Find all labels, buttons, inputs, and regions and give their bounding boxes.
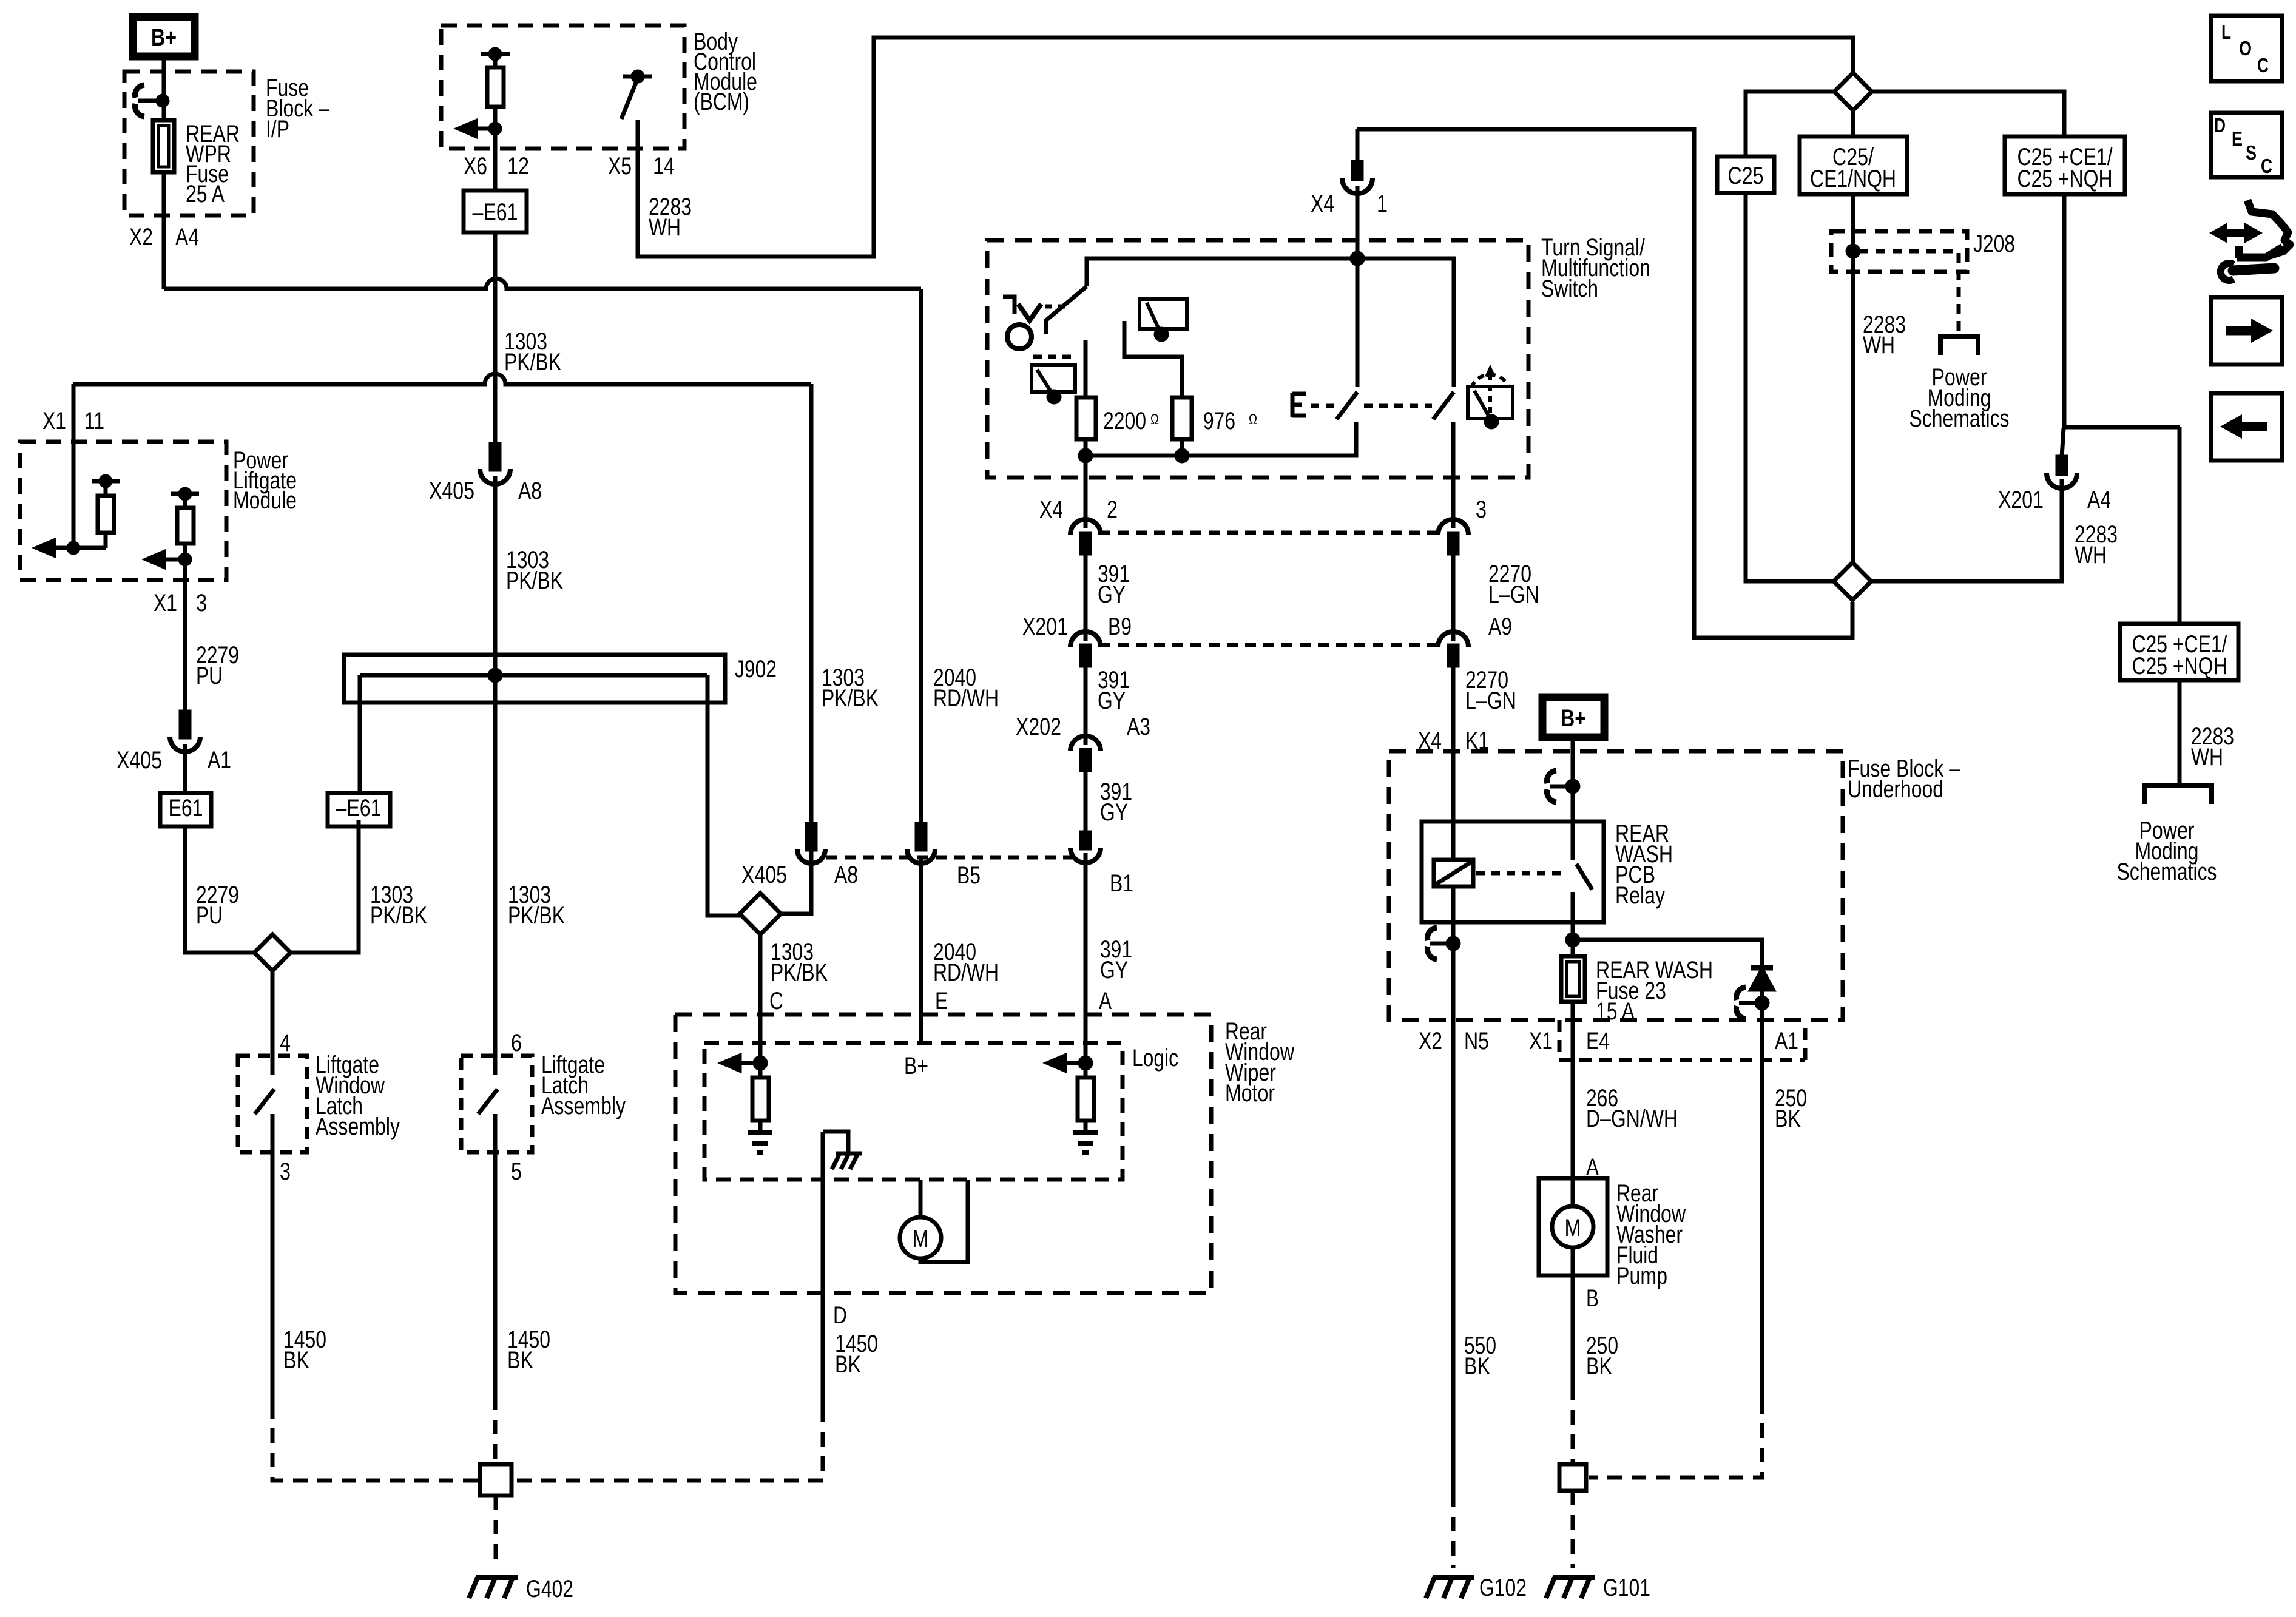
svg-text:M: M bbox=[913, 1226, 929, 1252]
svg-text:11: 11 bbox=[84, 408, 104, 434]
svg-text:Module: Module bbox=[233, 487, 297, 514]
svg-text:A8: A8 bbox=[518, 478, 542, 504]
stalk switch arm bbox=[1046, 286, 1087, 334]
svg-text:E4: E4 bbox=[1586, 1028, 1610, 1055]
BCM switch (X5-14) bbox=[633, 72, 643, 81]
wire J902 center leg down to liftgate latch bbox=[493, 675, 498, 1056]
wire pump B down to G101 splice bbox=[1571, 1275, 1575, 1386]
dashed row X4-2 to 3 bbox=[1099, 531, 1439, 535]
wire X1-3 down to X405-A1 bbox=[183, 559, 187, 712]
connector X202-A3 bbox=[1070, 736, 1101, 751]
wire N5 550 BK down to G102 bbox=[1451, 1020, 1456, 1493]
wire pin3 down (solid then dashed) bbox=[271, 1152, 275, 1404]
svg-text:PK/BK: PK/BK bbox=[370, 902, 427, 929]
motor resistor A bbox=[1084, 1063, 1088, 1078]
stalk circle bbox=[1007, 325, 1032, 349]
connector X4-1 bbox=[1353, 162, 1362, 179]
wire fuse to E4 bbox=[1571, 1002, 1575, 1020]
svg-text:PK/BK: PK/BK bbox=[508, 902, 565, 929]
svg-text:X4: X4 bbox=[1418, 727, 1442, 754]
wire C from diamond into wiper motor bbox=[758, 934, 763, 1063]
fuse clip (B+ relay feed) bbox=[1550, 785, 1572, 789]
J208 dashed box bbox=[1831, 231, 1967, 272]
diamond2 (2283 WH splice bottom) bbox=[1834, 562, 1871, 600]
bracket to power moding (J208) bbox=[1940, 336, 1978, 355]
svg-text:BK: BK bbox=[1586, 1353, 1612, 1380]
dashes above wiper icon 2 bbox=[1033, 355, 1074, 359]
washer icon (dashed arc + rect) bbox=[1471, 374, 1509, 388]
wire fuse to corner bbox=[162, 172, 166, 289]
svg-text:WH: WH bbox=[649, 214, 681, 241]
svg-text:B+: B+ bbox=[151, 24, 177, 51]
wire 391 GY B9 to X202-A3 bbox=[1084, 666, 1088, 745]
wire 391 GY X4-2 to X201-B9 bbox=[1084, 553, 1088, 641]
svg-text:(BCM): (BCM) bbox=[694, 89, 749, 115]
svg-text:PK/BK: PK/BK bbox=[822, 685, 879, 712]
Liftgate Window Latch Assembly dashed box bbox=[238, 1056, 307, 1152]
left arrow icon box bbox=[2211, 393, 2282, 461]
J902 splice pack bbox=[344, 655, 725, 703]
fuse REAR WASH 23 (double rect) bbox=[1561, 956, 1585, 1002]
svg-text:2200: 2200 bbox=[1103, 408, 1146, 434]
inner top wire of switch bbox=[1087, 258, 1454, 387]
svg-text:K1: K1 bbox=[1465, 727, 1489, 754]
module resistor 2 bbox=[171, 492, 199, 496]
wire junction down to fuse 23 bbox=[1571, 940, 1575, 956]
wire corner down to C25+CE1 box 2 bbox=[2178, 427, 2182, 624]
svg-text:GY: GY bbox=[1100, 799, 1128, 826]
svg-text:C: C bbox=[769, 988, 783, 1014]
svg-text:WH: WH bbox=[1863, 332, 1895, 359]
svg-text:BK: BK bbox=[835, 1351, 861, 1378]
latch 2 switch bbox=[493, 1056, 498, 1075]
wire 1303 drop to X405 A8 connector row bbox=[809, 384, 814, 824]
wire B+ down to clip bbox=[1571, 737, 1575, 822]
wire 391 GY A into motor bbox=[1084, 853, 1088, 1063]
svg-text:GY: GY bbox=[1100, 957, 1128, 984]
wash switch (switch 1) bbox=[1356, 258, 1360, 387]
connector X201-B9 bbox=[1070, 632, 1101, 647]
svg-text:C25 +NQH: C25 +NQH bbox=[2132, 653, 2227, 680]
svg-text:GY: GY bbox=[1098, 581, 1126, 608]
svg-text:Logic: Logic bbox=[1132, 1045, 1178, 1072]
svg-text:X202: X202 bbox=[1016, 714, 1061, 740]
wire icon1 to resistor 976 bbox=[1124, 321, 1182, 397]
svg-text:A9: A9 bbox=[1488, 613, 1512, 640]
motor C junction arrow bbox=[755, 1058, 766, 1068]
Fuse Block Underhood dashed box bbox=[1389, 751, 1843, 1020]
svg-text:PK/BK: PK/BK bbox=[771, 959, 828, 986]
svg-text:RD/WH: RD/WH bbox=[933, 959, 999, 986]
svg-text:CE1/NQH: CE1/NQH bbox=[1810, 166, 1896, 192]
resistor 976 ohm bbox=[1172, 397, 1192, 439]
svg-text:976: 976 bbox=[1203, 408, 1235, 434]
svg-text:15 A: 15 A bbox=[1596, 998, 1635, 1025]
wire A1 250 BK down and left to splice bbox=[1760, 1020, 1764, 1399]
Rear Window Wiper Motor dashed box bbox=[675, 1014, 1211, 1293]
svg-text:X1: X1 bbox=[1529, 1028, 1553, 1055]
svg-text:Ω: Ω bbox=[1249, 411, 1257, 428]
fuse clip (A1 output) bbox=[1739, 1001, 1761, 1005]
wire box2 to power moding bracket bbox=[2178, 680, 2182, 784]
svg-text:BK: BK bbox=[1775, 1106, 1801, 1132]
svg-text:Assembly: Assembly bbox=[316, 1113, 400, 1140]
svg-text:3: 3 bbox=[1476, 496, 1487, 523]
wire J902 left leg to -E61 bbox=[358, 675, 362, 793]
svg-text:PK/BK: PK/BK bbox=[504, 349, 561, 376]
BCM internal resistor bbox=[481, 52, 510, 56]
svg-text:Underhood: Underhood bbox=[1848, 776, 1943, 803]
svg-text:X5: X5 bbox=[608, 153, 632, 180]
motor A junction arrow bbox=[1080, 1058, 1091, 1068]
svg-text:A4: A4 bbox=[2087, 487, 2111, 513]
Logic dashed box bbox=[704, 1043, 1123, 1180]
relay coil bbox=[1434, 860, 1473, 886]
wire E (2040) below B5 into motor bbox=[919, 856, 923, 1043]
Power Liftgate Module dashed box bbox=[20, 442, 226, 580]
svg-text:X1: X1 bbox=[154, 590, 177, 616]
LOC icon box bbox=[2211, 16, 2282, 81]
relay dashed link bbox=[1476, 871, 1567, 876]
svg-text:A1: A1 bbox=[1775, 1028, 1798, 1055]
svg-text:X405: X405 bbox=[429, 478, 474, 504]
stub to X201-A4 bbox=[2062, 428, 2064, 457]
svg-text:3: 3 bbox=[280, 1158, 291, 1185]
resistor 2200 ohm bbox=[1076, 397, 1096, 439]
wire K1 through coil down to clip bbox=[1451, 886, 1456, 944]
svg-text:–E61: –E61 bbox=[473, 199, 518, 226]
svg-text:1: 1 bbox=[1377, 191, 1388, 217]
C25 box bbox=[1717, 157, 1774, 193]
ground G102 bbox=[1426, 1578, 1474, 1598]
wire diamond down to liftgate window latch bbox=[271, 971, 275, 1056]
svg-text:G402: G402 bbox=[526, 1576, 573, 1602]
svg-text:X4: X4 bbox=[1311, 191, 1334, 217]
module arrow 2 bbox=[163, 558, 185, 562]
wire C25 down to diamond2 bbox=[1746, 193, 1834, 581]
svg-text:–E61: –E61 bbox=[336, 795, 382, 822]
wire 391 GY A3 to B1 bbox=[1084, 768, 1088, 832]
wire 2270 L-GN A9 down to X4-K1 and relay coil bbox=[1451, 663, 1456, 860]
motor internal ground (chassis) bbox=[823, 1132, 848, 1152]
wire 1303 PK/BK from -E61 down to X405-A8 bbox=[493, 232, 498, 444]
svg-text:4: 4 bbox=[280, 1030, 291, 1056]
svg-text:L–GN: L–GN bbox=[1465, 687, 1516, 714]
svg-text:J902: J902 bbox=[735, 656, 777, 683]
motor loop wires bbox=[920, 1180, 968, 1262]
ground G402 bbox=[469, 1578, 518, 1598]
motor M circle bbox=[900, 1217, 941, 1258]
fuse clip (N5 output) bbox=[1430, 942, 1452, 946]
svg-text:B+: B+ bbox=[1561, 705, 1586, 732]
stalk dashes bbox=[1045, 305, 1065, 309]
svg-text:Motor: Motor bbox=[1225, 1080, 1275, 1107]
svg-text:X2: X2 bbox=[1419, 1028, 1442, 1055]
wire BCM X6-12 down to -E61 bbox=[493, 129, 498, 191]
latch 1 switch bbox=[271, 1056, 275, 1075]
fuse REAR WPR 25A (double rect) bbox=[153, 120, 174, 172]
svg-text:RD/WH: RD/WH bbox=[933, 685, 999, 712]
wire J902 right leg to X405 diamond bbox=[707, 675, 740, 916]
svg-text:A1: A1 bbox=[208, 747, 231, 774]
connector X201-A9 bbox=[1438, 632, 1468, 647]
tool icon outline bbox=[2247, 200, 2290, 255]
svg-text:Schematics: Schematics bbox=[2117, 859, 2217, 885]
svg-text:GY: GY bbox=[1098, 687, 1126, 714]
Liftgate Latch Assembly dashed box bbox=[461, 1056, 532, 1152]
svg-text:25 A: 25 A bbox=[186, 181, 225, 208]
dashed connector bracket X1/E4-A1 bbox=[1559, 1020, 1805, 1060]
svg-text:L–GN: L–GN bbox=[1488, 581, 1539, 608]
svg-text:B1: B1 bbox=[1110, 870, 1133, 897]
svg-text:D: D bbox=[2214, 114, 2226, 137]
svg-text:C: C bbox=[2257, 54, 2269, 76]
svg-text:14: 14 bbox=[653, 153, 675, 180]
connector A8 terminal (wiper motor row) bbox=[807, 824, 815, 849]
wire X5-14 down, right, up, right to diamond1 bbox=[638, 38, 1853, 257]
svg-text:J208: J208 bbox=[1973, 231, 2015, 257]
motor resistor C bbox=[758, 1063, 763, 1078]
svg-text:G101: G101 bbox=[1603, 1575, 1650, 1601]
relay switch bbox=[1571, 822, 1575, 860]
svg-text:D: D bbox=[833, 1302, 847, 1329]
connector B5 terminal bbox=[917, 824, 925, 849]
svg-text:X201: X201 bbox=[1998, 487, 2044, 513]
stalk bracket glyph bbox=[1003, 297, 1015, 314]
svg-text:A: A bbox=[1099, 988, 1112, 1014]
wire box down through J208 bbox=[1851, 194, 1855, 562]
wire E61 to splice diamond bbox=[185, 826, 254, 953]
svg-text:Schematics: Schematics bbox=[1909, 405, 2010, 432]
svg-text:Relay: Relay bbox=[1615, 882, 1665, 909]
svg-text:A3: A3 bbox=[1127, 714, 1150, 740]
svg-text:PU: PU bbox=[196, 902, 223, 929]
svg-text:B: B bbox=[1586, 1285, 1599, 1312]
tool icon double arrow bbox=[2221, 229, 2252, 237]
wire box down to corner bbox=[2064, 194, 2180, 427]
wire D down from motor ground bbox=[821, 1132, 825, 1408]
wiper icon 1 (rect with wiper arm) bbox=[1140, 299, 1187, 329]
connector X201-A4 bbox=[2058, 457, 2066, 474]
REAR WASH PCB Relay box bbox=[1422, 822, 1604, 922]
wire -E61 to splice diamond bbox=[291, 820, 359, 953]
wipe switch (switch 2) bbox=[1433, 392, 1454, 419]
svg-text:E: E bbox=[935, 988, 948, 1014]
wire pin5 down to G402 splice bbox=[493, 1152, 498, 1396]
svg-text:2: 2 bbox=[1107, 496, 1118, 523]
svg-text:BK: BK bbox=[1464, 1353, 1490, 1380]
tool icon wrench bbox=[2233, 268, 2274, 271]
svg-text:X405: X405 bbox=[116, 747, 162, 774]
wire 2040 RD/WH vertical down to B5 terminal bbox=[919, 289, 923, 823]
B+ box (fuse block underhood feed) bbox=[1542, 697, 1604, 737]
svg-text:X2: X2 bbox=[129, 224, 153, 251]
svg-text:12: 12 bbox=[507, 153, 529, 180]
C25+CE1/C25+NQH box (top) bbox=[2005, 137, 2125, 194]
wire 2270 L-GN X4-3 to A9 bbox=[1451, 553, 1456, 641]
svg-text:I/P: I/P bbox=[266, 116, 289, 143]
module resistor 1 bbox=[92, 479, 120, 484]
svg-text:WH: WH bbox=[2075, 542, 2107, 569]
connector B1 bbox=[1081, 832, 1090, 848]
svg-text:N5: N5 bbox=[1464, 1028, 1489, 1055]
svg-text:E: E bbox=[2232, 127, 2243, 150]
svg-text:PK/BK: PK/BK bbox=[506, 567, 563, 594]
splice square G101 bbox=[1559, 1464, 1586, 1491]
svg-text:X201: X201 bbox=[1022, 613, 1068, 640]
svg-text:A: A bbox=[1586, 1154, 1599, 1181]
wire above resistor 2200 bbox=[1084, 340, 1088, 397]
BCM arrow to left bbox=[474, 127, 496, 131]
dashed connector row A8-B5-B1 bbox=[826, 856, 1072, 860]
svg-text:Assembly: Assembly bbox=[541, 1093, 626, 1119]
label box -E61 (BCM output) bbox=[464, 191, 527, 232]
svg-text:Ω: Ω bbox=[1150, 411, 1159, 428]
wire junction to diode branch bbox=[1573, 940, 1762, 968]
svg-text:A8: A8 bbox=[834, 862, 858, 888]
svg-text:X1: X1 bbox=[42, 408, 66, 434]
BCM dashed box bbox=[441, 25, 684, 149]
Rear Window Washer Fluid Pump box bbox=[1539, 1178, 1607, 1275]
connector X4-3 bbox=[1438, 519, 1468, 535]
right arrow icon box bbox=[2211, 297, 2282, 365]
connector X405-A8 on 1303 wire bbox=[491, 444, 499, 470]
wire horizontal liftgate module run to A8 drop (hop at 816) bbox=[73, 374, 811, 384]
svg-text:B5: B5 bbox=[957, 862, 981, 889]
module arrow 1 bbox=[53, 546, 106, 550]
svg-text:B+: B+ bbox=[904, 1053, 928, 1079]
svg-text:D–GN/WH: D–GN/WH bbox=[1586, 1106, 1678, 1132]
ground (motor C side) bbox=[748, 1133, 772, 1153]
svg-text:BK: BK bbox=[283, 1347, 309, 1374]
pump M circle bbox=[1552, 1206, 1593, 1247]
svg-text:WH: WH bbox=[2191, 744, 2223, 771]
svg-text:C25 +NQH: C25 +NQH bbox=[2017, 166, 2113, 192]
svg-text:X405: X405 bbox=[741, 862, 787, 888]
svg-text:3: 3 bbox=[196, 590, 207, 616]
label box -E61 (left chain) bbox=[328, 793, 390, 826]
dashed row X201 B9-A9 bbox=[1099, 643, 1439, 647]
wire X201-A4 down to diamond2 bbox=[1871, 479, 2062, 581]
svg-text:S: S bbox=[2246, 141, 2257, 164]
svg-text:BK: BK bbox=[507, 1347, 533, 1374]
wire to E61 box bbox=[183, 744, 187, 793]
svg-text:C25: C25 bbox=[1728, 163, 1764, 189]
svg-text:X4: X4 bbox=[1039, 496, 1063, 523]
wire diamond1 down to C25/CE1/NQH bbox=[1851, 110, 1855, 137]
label box E61 bbox=[160, 793, 211, 826]
splice diamond (2279/1303) bbox=[254, 934, 291, 971]
svg-text:E61: E61 bbox=[169, 795, 203, 822]
wire N5 down inside box bbox=[1451, 944, 1456, 1020]
wire horizontal X2-A4 run to 2040 drop (hop at 818) bbox=[164, 279, 921, 289]
svg-text:Switch: Switch bbox=[1541, 275, 1598, 302]
wire X4-1 riser from connector up and over to right loop bbox=[1357, 129, 1852, 638]
splice square G402 bbox=[480, 1464, 512, 1496]
connector X405-A1 bbox=[181, 712, 189, 737]
wire diamond right arm up to A8 terminal bbox=[781, 849, 811, 914]
wire X1-11 into module bbox=[72, 384, 76, 548]
svg-text:6: 6 bbox=[511, 1030, 522, 1056]
ground (motor A side) bbox=[1073, 1133, 1098, 1153]
wire diamond1 right to C25+CE1 bbox=[1872, 92, 2064, 137]
C25+CE1/C25+NQH box (bottom) bbox=[2120, 624, 2238, 680]
svg-text:Pump: Pump bbox=[1616, 1263, 1667, 1289]
B+ box (fuse block I/P feed) bbox=[133, 17, 195, 56]
J208 dashed tap bbox=[1859, 251, 1959, 334]
wire E4 266 D-GN/WH down to pump bbox=[1571, 1020, 1575, 1178]
relay output junction bbox=[1567, 934, 1578, 945]
DESC icon box bbox=[2211, 113, 2282, 177]
X405 splice diamond bbox=[740, 893, 781, 934]
wire 1303 below X405-A8 to J902 bbox=[493, 476, 498, 675]
svg-text:B9: B9 bbox=[1108, 613, 1132, 640]
stalk V glyph bbox=[1018, 304, 1041, 320]
diamond1 (2283 WH splice top) bbox=[1834, 73, 1872, 110]
bracket to power moding (bottom right) bbox=[2145, 785, 2212, 804]
wire diamond1 left to C25 bbox=[1746, 92, 1834, 157]
svg-text:X6: X6 bbox=[464, 153, 487, 180]
svg-text:PU: PU bbox=[196, 663, 223, 689]
resistor bottom bus bbox=[1086, 422, 1356, 456]
svg-text:C: C bbox=[2261, 155, 2272, 177]
ground G101 bbox=[1546, 1578, 1595, 1598]
C25/CE1/NQH box bbox=[1800, 137, 1907, 194]
svg-text:A4: A4 bbox=[175, 224, 199, 251]
svg-text:5: 5 bbox=[511, 1158, 522, 1185]
svg-text:M: M bbox=[1565, 1215, 1581, 1241]
wire A1 down inside box bbox=[1760, 1003, 1764, 1020]
connector X4-2 under switch box bbox=[1070, 519, 1101, 535]
fuse clip (fuse block I/P) bbox=[138, 99, 163, 103]
diode bbox=[1751, 965, 1773, 971]
svg-text:G102: G102 bbox=[1479, 1575, 1527, 1601]
Fuse Block I/P dashed box bbox=[124, 72, 254, 215]
dashed link between switches bbox=[1364, 404, 1432, 408]
wiper icon 2 (rect with wiper arm) bbox=[1032, 365, 1075, 392]
Turn Signal / Multifunction Switch dashed box bbox=[987, 240, 1528, 478]
svg-text:L: L bbox=[2221, 21, 2231, 43]
wire B+ to fuse clip bbox=[162, 56, 166, 120]
E contact glyph bbox=[1292, 393, 1306, 417]
svg-text:O: O bbox=[2239, 37, 2252, 59]
